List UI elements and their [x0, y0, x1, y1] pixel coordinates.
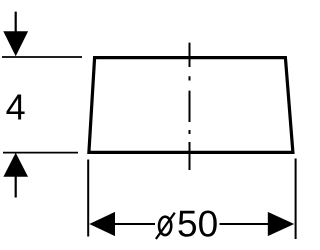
body outline (tapered foot cross-section) — [89, 58, 293, 153]
svg-text:4: 4 — [6, 87, 26, 128]
extension line top (height dim) — [2, 56, 82, 58]
extension line right (diameter dim) — [295, 159, 297, 240]
extension line left (diameter dim) — [87, 160, 89, 237]
extension line bottom (height dim) — [3, 152, 78, 154]
dimension line left segment — [115, 223, 155, 225]
arrowhead right (points right) — [268, 212, 294, 236]
arrowhead left (points left) — [89, 212, 115, 236]
dimension leader upper (down arrow) — [3, 12, 28, 57]
dimension leader lower (up arrow) — [3, 153, 28, 198]
diameter symbol ø (drawn) — [156, 213, 175, 239]
dimension line right segment — [220, 223, 269, 225]
svg-text:50: 50 — [177, 203, 218, 244]
centerline (dash-dot axis) — [189, 43, 191, 170]
